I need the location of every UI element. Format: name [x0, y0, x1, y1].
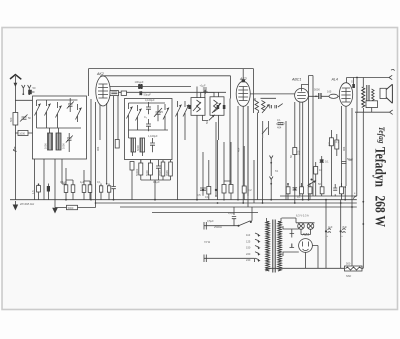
svg-text:240: 240	[246, 258, 251, 262]
AZ1 output wire	[306, 246, 319, 269]
svg-text:1μF: 1μF	[80, 180, 85, 184]
heater wires to pilot lamps	[282, 218, 315, 223]
resistor x322 row	[318, 182, 324, 194]
IF1 pin wires	[197, 115, 218, 199]
svg-text:C₀: C₀	[144, 115, 147, 119]
resistor vertical x132 under box	[130, 162, 134, 171]
IF1 primary can	[191, 98, 205, 116]
svg-text:220: 220	[246, 252, 251, 256]
oscillator box	[125, 99, 173, 160]
cap x113.5	[112, 184, 116, 200]
svg-text:5000: 5000	[136, 145, 140, 151]
cap x48	[47, 184, 50, 200]
tube AK2	[96, 72, 110, 106]
AF2 pin wires	[218, 99, 249, 208]
antenna A	[10, 75, 21, 200]
svg-text:+1μF: +1μF	[200, 83, 206, 87]
resistor x288	[286, 183, 290, 200]
power switch	[238, 221, 252, 227]
svg-text:1000: 1000	[19, 131, 25, 135]
fuse to right riser	[362, 112, 363, 268]
resistor pair x66 x73	[64, 180, 75, 200]
svg-text:110: 110	[246, 233, 251, 237]
svg-text:5000: 5000	[145, 170, 149, 176]
left under-box verticals	[35, 159, 85, 200]
detector caps	[270, 104, 283, 109]
box1 internal wires	[37, 100, 82, 152]
svg-text:0,1μF: 0,1μF	[153, 180, 160, 184]
switch S2c	[163, 104, 169, 122]
svg-text:0,1: 0,1	[325, 160, 329, 164]
mains line lower	[204, 257, 255, 259]
svg-text:150: 150	[246, 246, 251, 250]
resistor 50000	[135, 160, 143, 180]
capacitor 50pF	[139, 91, 151, 96]
svg-text:1,100μF: 1,100μF	[148, 134, 158, 138]
svg-text:5000: 5000	[68, 206, 74, 210]
svg-text:S: S	[351, 80, 353, 84]
tube ABC1	[291, 78, 308, 103]
junction dots on bus	[154, 199, 156, 201]
earth symbol under antenna line	[13, 201, 19, 211]
bus segment right	[280, 195, 357, 197]
electrolytic 8uF	[340, 225, 348, 238]
cap in box2 bottom	[148, 134, 158, 152]
fuse 500mA	[345, 262, 363, 279]
svg-text:100μμF: 100μμF	[135, 80, 144, 84]
padding caps in box2	[144, 98, 155, 131]
switch group before IF1	[176, 101, 182, 119]
DC output bottom line	[266, 268, 345, 271]
svg-text:9999: 9999	[158, 170, 162, 176]
coil 9999	[165, 160, 172, 180]
svg-text:5F: 5F	[28, 116, 31, 120]
resistor 5000 on ground branch	[55, 203, 96, 210]
detector top wires	[250, 94, 295, 100]
svg-text:9999: 9999	[165, 170, 169, 176]
svg-text:4,100μF: 4,100μF	[145, 98, 155, 102]
IF2 secondary coil	[262, 101, 266, 111]
resistor 500 in antenna lead	[9, 113, 18, 126]
resistor 0.2 x244	[242, 182, 252, 200]
switch feed from bus	[251, 207, 252, 222]
resistor 1000 horizontal	[15, 131, 32, 136]
node dots AK2	[90, 199, 92, 201]
cap 0.1 x321.5	[320, 156, 330, 166]
coupling capacitor at jacks	[28, 86, 36, 94]
bus line 2	[95, 202, 357, 204]
resistor x310	[308, 183, 312, 200]
switch S1c	[56, 102, 62, 120]
speaker terminal hooks	[355, 69, 395, 114]
svg-text:TA: TA	[275, 169, 278, 173]
phono jack pair	[270, 156, 279, 185]
middle vertical wires	[203, 100, 263, 203]
ABC1 top wire	[302, 76, 314, 200]
output transformer primary	[362, 87, 365, 107]
svg-text:125: 125	[246, 239, 251, 243]
bus line 3	[120, 206, 357, 208]
svg-text:NSF: NSF	[346, 274, 352, 278]
plate feed wires	[283, 226, 299, 256]
screen bypass cap	[351, 78, 355, 89]
svg-text:0,3: 0,3	[336, 140, 340, 144]
AK2 pin wires	[91, 96, 118, 203]
svg-text:ABC1: ABC1	[291, 78, 301, 82]
svg-text:50000: 50000	[135, 168, 139, 176]
coil 999	[158, 160, 165, 180]
cap 0.1	[153, 160, 161, 184]
e terminal curl	[353, 196, 356, 199]
trimmer cap box2	[154, 105, 163, 121]
AL4 cathode down	[342, 106, 347, 196]
switch S2b	[136, 105, 142, 123]
trimmer cap in box1 lower	[66, 133, 73, 146]
svg-text:AZ1: AZ1	[302, 233, 310, 237]
svg-text:Tefadyn 268 W: Tefadyn 268 W	[372, 147, 388, 227]
AK2 screen line	[119, 92, 226, 97]
filter cap verticals	[326, 200, 341, 269]
svg-text:ZF=468 kHz: ZF=468 kHz	[19, 202, 35, 206]
svg-text:0,2: 0,2	[248, 188, 252, 192]
AL4 plate wire to top	[347, 78, 390, 114]
bus line 4	[152, 212, 258, 214]
transformer T1 core	[273, 220, 275, 273]
svg-text:0,1: 0,1	[97, 180, 101, 184]
svg-text:50μF: 50μF	[347, 157, 353, 161]
switch S2a	[127, 103, 133, 121]
transformer T1 secondary	[278, 222, 281, 272]
svg-text:500: 500	[346, 262, 351, 266]
electrolytic 4uF	[325, 225, 333, 238]
resistor x209	[205, 183, 211, 200]
box2 internal wires	[129, 103, 169, 156]
loudspeaker	[380, 84, 392, 103]
svg-text:8μF: 8μF	[343, 225, 348, 229]
svg-text:0,5μF: 0,5μF	[207, 219, 214, 223]
IF2 primary coil	[255, 98, 259, 113]
IF1 top coupling	[201, 90, 214, 98]
IF2 trimmer arrow	[262, 104, 269, 113]
tube AL4	[331, 78, 353, 107]
cathode resistor ABC1	[289, 148, 297, 159]
osc coil L4	[136, 138, 145, 152]
rectifier plate caps	[290, 234, 295, 248]
svg-text:5000: 5000	[314, 88, 320, 92]
svg-text:500: 500	[9, 117, 13, 122]
svg-text:0,1μF: 0,1μF	[228, 211, 235, 215]
switch S1a	[35, 100, 41, 118]
switch S1d	[76, 104, 82, 122]
ground at x55	[52, 200, 58, 214]
trimmer capacitor beside antenna lead	[20, 115, 31, 122]
svg-text:Tefag: Tefag	[377, 127, 386, 144]
antenna jack 2	[28, 85, 31, 95]
resistor pair x224 x231	[222, 181, 233, 200]
ABC1 pin wires	[286, 102, 303, 203]
svg-text:4μF: 4μF	[328, 225, 333, 229]
svg-text:6,3 V 0,3 A: 6,3 V 0,3 A	[296, 214, 309, 218]
svg-text:464: 464	[342, 146, 346, 151]
svg-text:0,1μF: 0,1μF	[60, 180, 67, 184]
svg-text:100: 100	[296, 150, 300, 155]
capacitor 100pF on grid loop	[135, 80, 144, 89]
field coil wires	[352, 108, 364, 268]
svg-text:1000: 1000	[44, 143, 48, 149]
mains line upper	[204, 225, 238, 227]
speaker field coil box	[366, 101, 378, 108]
capacitor 1uF near IF1	[200, 83, 207, 97]
rectifier tube AZ1	[299, 233, 313, 253]
antenna jack 1	[22, 85, 25, 95]
pilot lamp 2	[307, 223, 314, 230]
svg-text:ca 4,5V: ca 4,5V	[276, 122, 285, 126]
top loop wire	[89, 69, 254, 100]
resistor x341.5	[340, 183, 347, 201]
small box right of AK2	[110, 91, 119, 96]
0.1uF cap near switch	[228, 207, 236, 226]
svg-text:404: 404	[277, 126, 282, 130]
coupling cap to AL4	[314, 88, 321, 100]
resistor x315.6 + pot	[308, 162, 323, 196]
transformer T1 primary	[266, 222, 269, 272]
coil L1	[44, 133, 53, 150]
dots middle bus	[215, 195, 217, 197]
cathode RC cluster	[327, 134, 353, 164]
bus line 1	[10, 199, 357, 201]
resistor x301.5	[297, 183, 303, 199]
coil L2	[56, 133, 66, 150]
osc coil L3	[131, 138, 136, 152]
svg-text:0,1: 0,1	[205, 195, 209, 199]
grid cap wire AK2	[101, 76, 231, 99]
svg-text:464: 464	[237, 147, 241, 152]
resistor 5000	[145, 160, 152, 180]
resistor vertical x117	[115, 140, 119, 149]
cap pair x38	[37, 183, 41, 199]
cap dot x216	[215, 185, 217, 196]
cap x294.8	[293, 188, 298, 191]
resistor x331.4 vertical	[329, 130, 339, 196]
trimmer in box1	[67, 98, 74, 112]
svg-text:1000: 1000	[62, 143, 66, 149]
svg-text:72 W: 72 W	[204, 240, 211, 244]
svg-text:0,1: 0,1	[277, 118, 281, 122]
detector lower parts	[262, 118, 284, 138]
svg-text:165: 165	[327, 90, 332, 94]
IF1 side capacitors	[188, 105, 225, 109]
grid resistor AL4	[327, 90, 338, 99]
voltage selector taps	[246, 233, 261, 262]
caps x101 x109	[99, 183, 110, 200]
pilot lamp 1	[298, 223, 305, 230]
svg-text:AK2: AK2	[96, 72, 104, 76]
switch S1b	[45, 100, 51, 118]
pilot lamp stubs	[301, 229, 311, 234]
wires under box2	[132, 160, 171, 200]
svg-text:AL4: AL4	[331, 78, 338, 82]
cap 0.5 x203	[197, 186, 206, 197]
resistor pair x84 x90	[82, 181, 92, 200]
svg-text:464: 464	[96, 146, 100, 151]
svg-text:50μμF: 50μμF	[144, 93, 152, 97]
transformer top wires	[267, 218, 282, 222]
svg-text:1,5: 1,5	[31, 190, 35, 194]
AK2 plate line	[109, 87, 197, 98]
small box 2 right of AK2	[121, 91, 126, 95]
arrow under IF1	[209, 115, 215, 121]
svg-text:0,5: 0,5	[197, 193, 201, 197]
IF1 secondary can	[210, 97, 224, 116]
transformer secondary	[372, 89, 375, 101]
cap x335 small	[333, 184, 337, 196]
band switch box 1	[33, 96, 87, 159]
wire antenna to box	[15, 99, 32, 101]
tube AF2	[236, 69, 250, 107]
transformer core	[367, 85, 369, 108]
mains input caps	[204, 219, 214, 262]
wire: left lead lower squiggle	[13, 147, 16, 151]
